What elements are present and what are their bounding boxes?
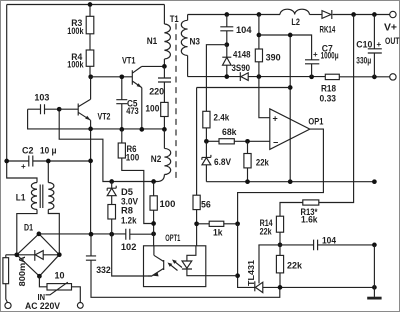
node x290 y35	[288, 33, 293, 38]
node ground bus x91	[89, 232, 94, 237]
node V+ sense tap	[351, 12, 356, 17]
svg-text:100: 100	[126, 152, 140, 163]
node VT1 emitter bus	[139, 127, 144, 132]
diode 3S90	[239, 72, 241, 81]
node snubber emitter bus	[162, 127, 167, 132]
svg-text:68k: 68k	[222, 127, 237, 138]
wire VT2 emitter vertical to C2 bus and ground bus	[90, 129, 92, 234]
node top rail R3	[88, 2, 93, 7]
node VT2 emitter bus	[88, 127, 93, 132]
node D1 left	[14, 252, 19, 257]
resistor R4	[86, 50, 94, 66]
capacitor 104 feedback	[314, 240, 318, 251]
svg-text:800mA: 800mA	[17, 256, 27, 286]
wire resistor 10 to AC terminal 2	[72, 287, 81, 303]
svg-text:102: 102	[121, 242, 136, 253]
node D1 top	[37, 232, 42, 237]
bridge rectifier D1	[17, 234, 60, 276]
node rail 390 op+	[257, 74, 262, 79]
op-amp OP1	[270, 109, 310, 150]
wire ground down	[373, 245, 375, 297]
wire top rail B+	[7, 4, 165, 6]
node C2 bus right end	[88, 159, 93, 164]
node 56 1k	[194, 221, 199, 226]
svg-text:RK14: RK14	[320, 25, 336, 36]
wire 332 bottom to bottom bus	[91, 260, 280, 297]
capacitor 220	[163, 66, 165, 78]
D1 internal diode	[17, 254, 60, 256]
inductor L1 left winding	[31, 183, 37, 210]
resistor R13	[303, 200, 319, 205]
svg-text:V+: V+	[384, 22, 397, 33]
svg-text:22k: 22k	[260, 227, 273, 238]
node C5 top	[119, 74, 124, 79]
resistor 56	[193, 195, 200, 209]
wire D1 bottom to resistor 10	[39, 276, 47, 287]
svg-text:1000μ: 1000μ	[321, 51, 339, 62]
svg-text:10: 10	[55, 270, 65, 281]
svg-text:103: 103	[34, 92, 49, 103]
transistor VT2	[59, 99, 90, 120]
wire RK14 to V+ terminal	[333, 14, 390, 16]
wire L1 right winding top to C2 bus	[47, 161, 49, 183]
wire left rail to L1 left winding top	[7, 161, 37, 183]
diode RK14	[322, 11, 331, 19]
svg-text:100k: 100k	[67, 59, 84, 70]
node N2 bottom	[151, 179, 156, 184]
wire OPT1 emitter exit	[148, 275, 152, 277]
svg-text:56: 56	[201, 199, 211, 210]
svg-text:220: 220	[149, 87, 164, 98]
node sec rail 104	[224, 12, 229, 17]
svg-text:C10: C10	[356, 39, 372, 50]
inductor L2	[280, 9, 309, 14]
svg-text:100: 100	[145, 103, 159, 114]
capacitor 104 snubber	[226, 15, 228, 27]
svg-text:AC 220V: AC 220V	[25, 301, 61, 312]
svg-text:L1: L1	[16, 193, 26, 204]
wire TL431 cathode line	[238, 224, 255, 288]
svg-text:−: −	[273, 138, 278, 148]
inductor L1 right winding	[48, 183, 54, 210]
T1 core dashed line	[175, 24, 177, 181]
node 103 VT2 base	[57, 107, 62, 112]
node C10 top	[372, 12, 377, 17]
node C5 bottom	[119, 127, 124, 132]
resistor R18	[325, 74, 339, 79]
node D5 tap	[109, 179, 114, 184]
svg-text:+: +	[313, 50, 318, 59]
wire R4 bottom to VT1 base node	[89, 66, 91, 77]
node 104 ground line	[372, 243, 377, 248]
terminal AC input 2	[77, 303, 83, 309]
resistor R6	[118, 143, 125, 158]
wire R3 to R4	[89, 34, 91, 50]
wire V+ sense down to R13	[319, 15, 354, 203]
wire VT2 base network down	[59, 109, 153, 181]
node rail C10	[372, 75, 377, 80]
wire primary ground bus y234	[39, 233, 154, 235]
svg-text:D1: D1	[24, 222, 34, 233]
diode 4148	[226, 45, 228, 58]
resistor 10 (fusible)	[47, 284, 72, 290]
wire R6 bottom to 100 bottom node	[122, 129, 154, 223]
svg-text:C2: C2	[22, 146, 34, 157]
svg-text:VT2: VT2	[98, 112, 111, 123]
wire sense to 56	[196, 88, 198, 196]
svg-text:22k: 22k	[256, 158, 270, 169]
capacitor 103	[28, 108, 60, 110]
node 100 R6 junction	[151, 221, 156, 226]
node 1k op output	[235, 221, 240, 226]
svg-text:OUT: OUT	[385, 36, 400, 46]
svg-text:OPT1: OPT1	[165, 233, 180, 244]
svg-text:+: +	[377, 40, 382, 49]
wire secondary top rail	[188, 14, 280, 16]
capacitor C7	[305, 60, 319, 64]
terminal V+	[390, 11, 396, 17]
node rail 4148	[224, 74, 229, 79]
resistor 100 snubber	[163, 82, 165, 102]
capacitor C2 plates	[29, 156, 33, 167]
fuse FU 800mA	[6, 255, 17, 258]
terminal OUT minus	[390, 74, 396, 80]
wire left rail	[6, 5, 8, 162]
resistor 1k	[197, 223, 210, 225]
svg-text:TL431: TL431	[246, 260, 256, 286]
TL431	[254, 281, 256, 291]
svg-text:10 μ: 10 μ	[40, 146, 57, 157]
terminal AC input 1	[5, 302, 11, 308]
node sec rail 390	[257, 12, 262, 17]
svg-text:N1: N1	[147, 36, 158, 47]
node ground wire x374	[372, 285, 377, 290]
svg-text:VT1: VT1	[122, 55, 136, 66]
wire 4148 node to 2.4k	[206, 45, 226, 112]
svg-text:1.2k: 1.2k	[121, 216, 137, 227]
svg-text:N3: N3	[190, 37, 201, 48]
node minus input 68k	[245, 139, 250, 144]
wire TL431 ref	[258, 245, 260, 284]
node R14 ref	[278, 243, 283, 248]
wire op plus input from rail	[259, 77, 270, 118]
node x290 rail	[288, 179, 293, 184]
svg-text:330μ: 330μ	[356, 56, 371, 67]
wire L1 right winding bottom to D1 right corner	[48, 210, 59, 255]
resistor R8	[108, 205, 116, 220]
svg-text:N2: N2	[151, 154, 162, 165]
svg-text:100: 100	[160, 199, 176, 210]
resistor R14	[276, 216, 283, 232]
node rail ground x374	[372, 179, 377, 184]
optocoupler OPT1 box	[144, 246, 206, 287]
node R4 VT2 collector	[88, 74, 93, 79]
capacitor C10	[373, 15, 375, 49]
wire ref node y245	[258, 244, 374, 246]
capacitor 102 plates	[126, 229, 130, 240]
wire 103 left to emitter bus	[28, 109, 165, 129]
wire y35 to C7	[259, 35, 312, 60]
svg-text:+: +	[273, 114, 278, 124]
svg-text:390: 390	[266, 52, 281, 63]
node rail C7	[309, 74, 314, 79]
svg-text:2.4k: 2.4k	[214, 112, 230, 123]
winding N2	[163, 129, 165, 148]
svg-text:T1: T1	[170, 14, 180, 25]
svg-text:0.33: 0.33	[320, 93, 337, 104]
resistor R3	[89, 5, 91, 17]
svg-text:6.8V: 6.8V	[214, 157, 232, 168]
OPT1 light arrows	[169, 261, 182, 271]
node x290 sense	[288, 85, 293, 90]
resistor 100 N2	[153, 182, 155, 196]
svg-text:22k: 22k	[287, 260, 303, 271]
wire C2 bus	[7, 160, 91, 162]
resistor 2.4k	[203, 111, 210, 128]
svg-text:+: +	[21, 162, 26, 171]
winding N1	[163, 5, 165, 25]
OPT1 LED	[187, 246, 196, 261]
transistor VT1	[132, 66, 142, 87]
node ground bus R8	[109, 232, 114, 237]
node 102 right x153	[151, 232, 156, 237]
ground symbol	[367, 297, 381, 300]
resistor 22k lower	[279, 245, 281, 256]
svg-text:473: 473	[126, 106, 139, 117]
resistor 68k	[219, 139, 234, 144]
capacitor 332	[90, 234, 92, 256]
node 22k rail	[245, 179, 250, 184]
wire feedback ground rail y181.7	[206, 181, 374, 183]
svg-text:OP1: OP1	[308, 116, 324, 127]
node N1 bottom VT1 collector	[162, 64, 167, 69]
svg-text:332: 332	[96, 265, 111, 276]
node D1 bottom	[37, 274, 42, 279]
wire L1 left winding bottom to D1 left corner	[17, 210, 37, 255]
svg-text:4148: 4148	[233, 50, 251, 61]
svg-text:104: 104	[236, 25, 252, 36]
node 104 4148	[224, 42, 229, 47]
wire current sense y87	[197, 87, 291, 89]
OPT1 phototransistor	[152, 246, 164, 276]
svg-text:100k: 100k	[67, 26, 84, 37]
node C2 bus left	[4, 159, 9, 164]
node 2.4k 68k	[204, 139, 209, 144]
svg-text:1.6k: 1.6k	[301, 214, 318, 225]
resistor 22k upper	[247, 141, 249, 153]
node TL431 22k	[278, 285, 283, 290]
L1 core bars	[40, 185, 43, 209]
node x237 LED cathode	[235, 273, 240, 278]
zener 6.8V	[205, 141, 207, 157]
wire R8 node to OPT1 emitter	[112, 234, 153, 276]
winding N3	[187, 15, 189, 21]
node 390 y35	[257, 33, 262, 38]
wire L2 to RK14	[309, 14, 321, 16]
zener D5	[111, 182, 113, 189]
node D1 right	[57, 252, 62, 257]
wire x290 vertical	[289, 35, 291, 182]
capacitor C5	[121, 77, 123, 130]
svg-text:104: 104	[322, 235, 337, 246]
wire op minus input	[234, 140, 269, 142]
svg-text:L2: L2	[291, 17, 300, 28]
svg-text:1k: 1k	[213, 228, 223, 239]
wire VT1 base	[91, 76, 133, 78]
node C2 bus L1 tap	[46, 159, 51, 164]
resistor 390	[258, 15, 260, 50]
wire secondary ground rail	[188, 76, 390, 78]
wire op output	[238, 129, 324, 224]
svg-text:3S90: 3S90	[232, 63, 251, 74]
